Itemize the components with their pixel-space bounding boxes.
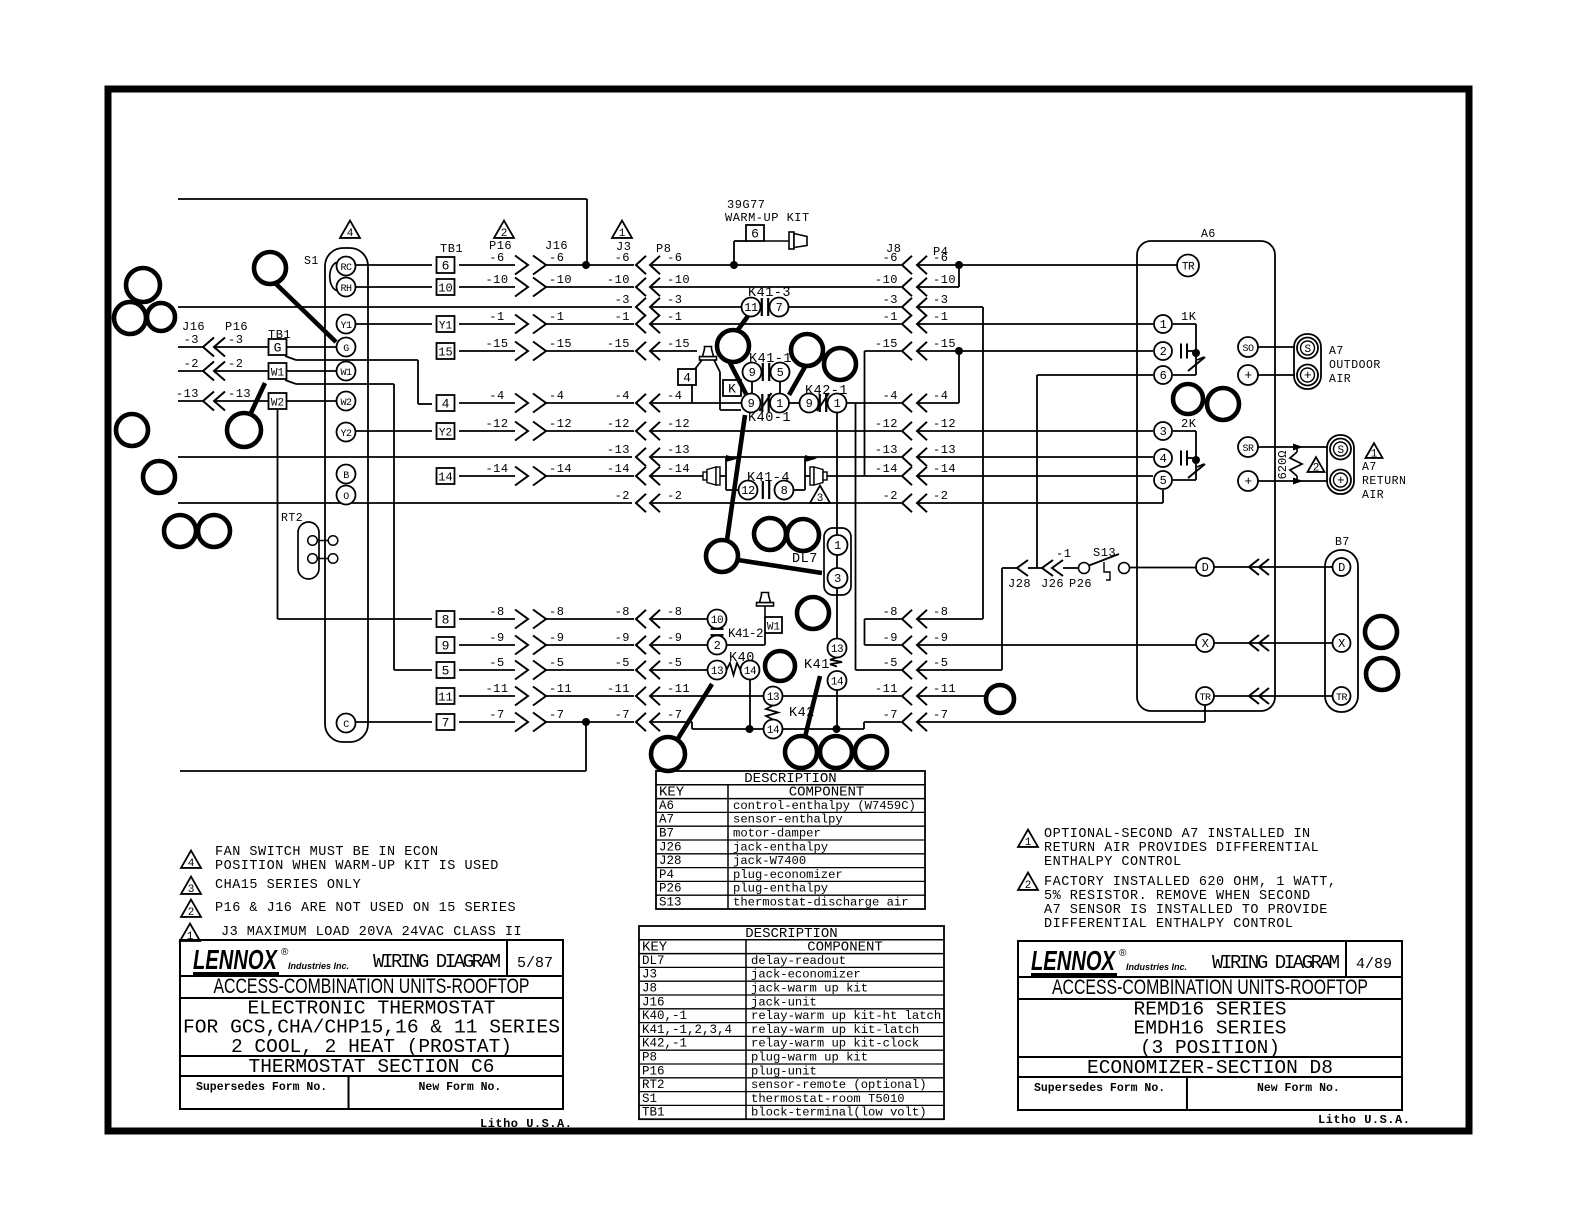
svg-text:K41-2: K41-2 bbox=[728, 627, 763, 641]
wire D row to B7 bbox=[1215, 559, 1333, 575]
connector J8/P4 -15 bbox=[875, 337, 956, 360]
svg-text:RC: RC bbox=[340, 263, 352, 274]
svg-text:-15: -15 bbox=[485, 337, 508, 351]
svg-text:10: 10 bbox=[438, 282, 452, 296]
svg-text:K40,-1: K40,-1 bbox=[642, 1009, 687, 1023]
svg-text:1: 1 bbox=[619, 228, 626, 240]
terminal block square 4 bbox=[437, 395, 455, 412]
connector J3/P8 -13 bbox=[607, 443, 690, 466]
S1 terminal W2 bbox=[337, 392, 356, 411]
svg-text:sensor-remote (optional): sensor-remote (optional) bbox=[751, 1078, 927, 1092]
svg-text:J28: J28 bbox=[1008, 577, 1031, 591]
svg-text:11: 11 bbox=[744, 301, 758, 315]
svg-text:-5: -5 bbox=[489, 656, 504, 670]
label A7 RETURN AIR bbox=[1362, 461, 1406, 502]
svg-text:jack-W7400: jack-W7400 bbox=[733, 854, 806, 868]
svg-text:4/89: 4/89 bbox=[1356, 956, 1392, 973]
svg-text:control-enthalpy (W7459C): control-enthalpy (W7459C) bbox=[733, 799, 916, 813]
svg-text:-15: -15 bbox=[549, 337, 572, 351]
svg-text:B7: B7 bbox=[1335, 536, 1350, 549]
svg-text:14: 14 bbox=[831, 677, 844, 689]
wire buzzer legs to 4 and K bbox=[695, 360, 741, 410]
svg-text:K40-1: K40-1 bbox=[748, 411, 791, 426]
terminal block square 10 bbox=[437, 279, 455, 296]
svg-text:-12: -12 bbox=[607, 417, 630, 431]
svg-text:-14: -14 bbox=[485, 462, 508, 476]
svg-text:-15: -15 bbox=[933, 337, 956, 351]
svg-text:jack-enthalpy: jack-enthalpy bbox=[733, 840, 828, 854]
svg-text:relay-warm up kit-ht latch: relay-warm up kit-ht latch bbox=[751, 1009, 941, 1023]
svg-text:J8: J8 bbox=[642, 982, 657, 996]
svg-text:A7: A7 bbox=[659, 813, 674, 827]
indicator buzzer at W1 bbox=[757, 593, 774, 618]
svg-text:-15: -15 bbox=[667, 337, 690, 351]
S1 terminal O bbox=[337, 486, 356, 505]
wire row -10 bbox=[355, 265, 959, 287]
svg-text:-10: -10 bbox=[607, 273, 630, 287]
svg-text:RETURN: RETURN bbox=[1362, 475, 1406, 488]
svg-text:J26: J26 bbox=[659, 840, 682, 854]
svg-text:-5: -5 bbox=[615, 656, 630, 670]
connector J8/P4 -2 bbox=[883, 489, 949, 512]
svg-text:13: 13 bbox=[711, 666, 723, 678]
svg-text:-10: -10 bbox=[875, 273, 898, 287]
note 1 text bbox=[180, 924, 522, 944]
connector P16/J16 -12 bbox=[485, 417, 572, 441]
svg-text:-7: -7 bbox=[933, 708, 948, 722]
svg-text:-12: -12 bbox=[485, 417, 508, 431]
svg-text:P26: P26 bbox=[1069, 577, 1092, 591]
1K potentiometer bbox=[1173, 310, 1205, 375]
svg-text:plug-economizer: plug-economizer bbox=[733, 868, 843, 882]
svg-text:13: 13 bbox=[767, 692, 779, 704]
svg-text:-13: -13 bbox=[667, 443, 690, 457]
39G77 warm-up kit bbox=[725, 198, 810, 264]
S1 terminal W1 bbox=[337, 362, 356, 381]
wire row -3 middle/right bbox=[650, 307, 983, 619]
border frame bbox=[108, 89, 1469, 1131]
svg-text:6: 6 bbox=[1160, 369, 1167, 383]
svg-text:Y2: Y2 bbox=[340, 429, 352, 440]
svg-text:1: 1 bbox=[1160, 318, 1167, 332]
terminal block square W1 bbox=[269, 363, 287, 380]
svg-text:-7: -7 bbox=[489, 708, 504, 722]
wire X row to B7 bbox=[1214, 635, 1332, 651]
svg-text:2K: 2K bbox=[1181, 417, 1197, 431]
svg-text:Litho U.S.A.: Litho U.S.A. bbox=[480, 1117, 572, 1131]
wire A6 terminal 6 to S13 bbox=[1037, 375, 1153, 568]
svg-text:S13: S13 bbox=[1093, 546, 1116, 560]
svg-text:®: ® bbox=[281, 947, 289, 958]
svg-text:-6: -6 bbox=[549, 251, 564, 265]
relay contact K41-4 bbox=[739, 471, 794, 500]
title block right (economizer section D8) bbox=[1018, 941, 1402, 1110]
svg-text:-1: -1 bbox=[933, 310, 948, 324]
svg-text:J16: J16 bbox=[182, 320, 205, 334]
wire SR to return S bbox=[1258, 446, 1328, 448]
sensor A7 return air connector bbox=[1327, 435, 1354, 494]
A6 terminal 2 bbox=[1154, 342, 1172, 360]
svg-text:9: 9 bbox=[806, 397, 813, 411]
connector P16/J16 -14 bbox=[485, 462, 572, 486]
svg-text:P16 & J16 ARE NOT USED ON 15 S: P16 & J16 ARE NOT USED ON 15 SERIES bbox=[215, 901, 516, 916]
connector J8/P4 -11 bbox=[875, 682, 956, 705]
svg-text:thermostat-discharge air: thermostat-discharge air bbox=[733, 896, 909, 910]
svg-text:-7: -7 bbox=[883, 708, 898, 722]
svg-text:5% RESISTOR. REMOVE WHEN SECON: 5% RESISTOR. REMOVE WHEN SECOND bbox=[1044, 889, 1311, 904]
svg-text:1: 1 bbox=[834, 397, 841, 411]
connector J8/P4 -6 bbox=[883, 251, 949, 274]
connector J8/P4 -14 bbox=[875, 462, 956, 485]
svg-text:-3: -3 bbox=[883, 293, 898, 307]
svg-text:-9: -9 bbox=[883, 631, 898, 645]
svg-text:K: K bbox=[728, 382, 736, 397]
connector J8/P4 -7 bbox=[883, 708, 949, 731]
svg-text:A7: A7 bbox=[1329, 345, 1344, 358]
svg-text:-7: -7 bbox=[667, 708, 682, 722]
svg-text:A6: A6 bbox=[659, 799, 674, 813]
svg-text:4: 4 bbox=[347, 228, 354, 240]
svg-text:-5: -5 bbox=[667, 656, 682, 670]
svg-text:P16: P16 bbox=[225, 320, 248, 334]
svg-text:SR: SR bbox=[1242, 444, 1254, 455]
svg-text:P8: P8 bbox=[642, 1051, 657, 1065]
svg-text:-14: -14 bbox=[667, 462, 690, 476]
A6 terminal 4 bbox=[1154, 449, 1172, 467]
connector P16/J16 -11 bbox=[485, 682, 572, 706]
wire G to TB1-4 bbox=[285, 356, 432, 404]
connector P16/J16 -6 bbox=[489, 251, 564, 275]
svg-text:X: X bbox=[1202, 637, 1209, 651]
svg-text:-3: -3 bbox=[933, 293, 948, 307]
wire row -1 bbox=[355, 323, 1153, 325]
svg-text:J3 MAXIMUM LOAD 20VA 24VAC CLA: J3 MAXIMUM LOAD 20VA 24VAC CLASS II bbox=[221, 925, 522, 940]
wire TR row to B7 bbox=[1214, 688, 1332, 704]
svg-text:ACCESS-COMBINATION UNITS-ROOFT: ACCESS-COMBINATION UNITS-ROOFTOP bbox=[1052, 976, 1368, 999]
note triangle 3 bbox=[810, 486, 830, 506]
svg-text:-13: -13 bbox=[176, 387, 199, 401]
svg-text:-4: -4 bbox=[883, 389, 898, 403]
description table B (thermostat keys) bbox=[639, 926, 944, 1120]
note 2 text bbox=[181, 900, 516, 920]
description table A (economizer keys) bbox=[656, 771, 925, 910]
svg-text:1: 1 bbox=[1025, 837, 1032, 849]
A6 terminal 5 bbox=[1154, 471, 1172, 489]
svg-text:D: D bbox=[1202, 561, 1209, 575]
note triangle 1 return air bbox=[1366, 443, 1383, 460]
connector J3/P8 -7 bbox=[615, 708, 683, 731]
svg-text:New Form No.: New Form No. bbox=[1257, 1082, 1340, 1095]
wire top feeder to row -6 bbox=[178, 199, 587, 265]
svg-text:4: 4 bbox=[683, 371, 691, 386]
terminal block square 11 bbox=[437, 688, 455, 705]
wire row -8 bbox=[459, 619, 983, 645]
svg-text:-4: -4 bbox=[549, 389, 564, 403]
A6 terminal TR out bbox=[1196, 687, 1214, 705]
svg-text:Supersedes Form No.: Supersedes Form No. bbox=[1034, 1082, 1165, 1095]
svg-text:P16: P16 bbox=[642, 1064, 665, 1078]
svg-text:7: 7 bbox=[442, 716, 450, 731]
terminal block square 6 bbox=[437, 257, 455, 274]
svg-text:-2: -2 bbox=[228, 357, 243, 371]
svg-text:-10: -10 bbox=[933, 273, 956, 287]
svg-text:14: 14 bbox=[767, 725, 780, 737]
svg-text:-11: -11 bbox=[549, 682, 572, 696]
svg-text:11: 11 bbox=[438, 691, 452, 705]
connector J3/P8 -5 bbox=[615, 656, 683, 679]
left row -13 wire to W2 bbox=[178, 400, 336, 402]
relay contact K40-1 bbox=[742, 393, 792, 426]
svg-text:New Form No.: New Form No. bbox=[419, 1081, 502, 1094]
svg-text:-10: -10 bbox=[549, 273, 572, 287]
connector J3/P8 -4 bbox=[615, 389, 683, 412]
svg-text:B7: B7 bbox=[659, 827, 674, 841]
svg-text:-11: -11 bbox=[933, 682, 956, 696]
svg-text:-9: -9 bbox=[549, 631, 564, 645]
A6 terminal TR1 bbox=[1177, 255, 1199, 277]
relay coil K41 bbox=[804, 639, 847, 730]
svg-text:W2: W2 bbox=[271, 398, 284, 410]
svg-text:5: 5 bbox=[1160, 474, 1167, 488]
svg-text:13: 13 bbox=[831, 644, 843, 656]
svg-text:-3: -3 bbox=[615, 293, 630, 307]
connector J3/P8 -15 bbox=[607, 337, 690, 360]
svg-text:-14: -14 bbox=[607, 462, 630, 476]
svg-text:-14: -14 bbox=[549, 462, 572, 476]
wire SO to outdoor S bbox=[1258, 346, 1295, 348]
svg-text:-9: -9 bbox=[615, 631, 630, 645]
svg-text:relay-warm up kit-latch: relay-warm up kit-latch bbox=[751, 1023, 919, 1037]
svg-text:4: 4 bbox=[442, 397, 450, 412]
svg-text:D: D bbox=[1338, 561, 1345, 575]
svg-text:-4: -4 bbox=[667, 389, 682, 403]
wire row -3 long left segment bbox=[178, 306, 632, 308]
label A7 OUTDOOR AIR bbox=[1329, 345, 1381, 386]
note triangle 2 at resistor bbox=[1308, 457, 1325, 474]
svg-text:-6: -6 bbox=[615, 251, 630, 265]
svg-text:plug-unit: plug-unit bbox=[751, 1064, 817, 1078]
terminal block square G bbox=[269, 339, 287, 356]
svg-text:14: 14 bbox=[744, 666, 757, 678]
svg-text:2: 2 bbox=[1313, 462, 1320, 474]
svg-text:-1: -1 bbox=[883, 310, 898, 324]
svg-text:LENNOX: LENNOX bbox=[193, 944, 279, 975]
wire row -4 bbox=[459, 403, 959, 670]
svg-text:S1: S1 bbox=[642, 1092, 657, 1106]
connector J8/P4 -10 bbox=[875, 273, 956, 296]
delay readout DL7 bbox=[792, 413, 851, 639]
wire row -11 bbox=[459, 695, 985, 697]
connector J8/P4 -1 bbox=[883, 310, 949, 333]
svg-text:DL7: DL7 bbox=[792, 552, 818, 567]
svg-text:Supersedes Form No.: Supersedes Form No. bbox=[196, 1081, 327, 1094]
svg-text:-11: -11 bbox=[607, 682, 630, 696]
svg-text:A7 SENSOR IS INSTALLED TO PROV: A7 SENSOR IS INSTALLED TO PROVIDE bbox=[1044, 903, 1328, 918]
svg-text:Industries Inc.: Industries Inc. bbox=[1126, 962, 1187, 972]
svg-text:620Ω: 620Ω bbox=[1276, 451, 1290, 480]
svg-text:-2: -2 bbox=[615, 489, 630, 503]
svg-text:-8: -8 bbox=[667, 605, 682, 619]
wire bottom return from row -7 bbox=[180, 718, 590, 771]
S1 terminal G bbox=[337, 338, 356, 357]
connector J8/P4 -13 bbox=[875, 443, 956, 466]
wire row -13 long left segment bbox=[178, 456, 632, 458]
svg-text:K42,-1: K42,-1 bbox=[642, 1037, 687, 1051]
jumper arc RC-RH bbox=[330, 262, 338, 291]
svg-text:-6: -6 bbox=[489, 251, 504, 265]
svg-text:delay-readout: delay-readout bbox=[751, 954, 846, 968]
svg-text:C: C bbox=[343, 720, 349, 731]
svg-text:P26: P26 bbox=[659, 882, 682, 896]
terminal block square W2 bbox=[269, 393, 287, 410]
svg-text:jack-warm up kit: jack-warm up kit bbox=[751, 982, 868, 996]
svg-text:3: 3 bbox=[834, 572, 841, 586]
svg-text:WIRING DIAGRAM: WIRING DIAGRAM bbox=[1212, 952, 1340, 974]
svg-text:plug-warm up kit: plug-warm up kit bbox=[751, 1051, 868, 1065]
connector J3/P8 -12 bbox=[607, 417, 690, 440]
terminal block square 14 bbox=[437, 468, 455, 485]
svg-text:W1: W1 bbox=[340, 368, 352, 379]
svg-text:TR: TR bbox=[1199, 693, 1211, 704]
svg-text:WARM-UP KIT: WARM-UP KIT bbox=[725, 211, 810, 225]
connector J3/P8 -3 bbox=[615, 293, 683, 316]
relay contact K41-2 bbox=[708, 610, 764, 655]
svg-text:5: 5 bbox=[442, 664, 450, 679]
svg-text:AIR: AIR bbox=[1329, 373, 1351, 386]
connector J8/P4 -3 bbox=[883, 293, 949, 316]
connector J8/P4 -4 bbox=[883, 389, 949, 412]
svg-text:W1: W1 bbox=[767, 622, 781, 634]
svg-text:-1: -1 bbox=[615, 310, 630, 324]
svg-text:9: 9 bbox=[749, 366, 756, 380]
svg-text:Litho U.S.A.: Litho U.S.A. bbox=[1318, 1113, 1410, 1127]
left connector -13 chevrons bbox=[176, 387, 251, 411]
P16 header + triangle 2 bbox=[489, 221, 514, 253]
svg-text:-3: -3 bbox=[228, 333, 243, 347]
svg-text:7: 7 bbox=[776, 301, 783, 315]
terminal block square Y1 bbox=[437, 316, 455, 333]
svg-text:THERMOSTAT SECTION C6: THERMOSTAT SECTION C6 bbox=[249, 1056, 495, 1078]
svg-text:S1: S1 bbox=[304, 255, 319, 268]
svg-text:-7: -7 bbox=[549, 708, 564, 722]
svg-text:8: 8 bbox=[781, 484, 788, 498]
connector P16/J16 -7 bbox=[489, 708, 564, 732]
svg-text:Industries Inc.: Industries Inc. bbox=[288, 961, 349, 971]
svg-text:-3: -3 bbox=[184, 333, 199, 347]
svg-text:-12: -12 bbox=[667, 417, 690, 431]
svg-text:P4: P4 bbox=[659, 868, 674, 882]
svg-text:-12: -12 bbox=[933, 417, 956, 431]
right note 1 bbox=[1018, 827, 1319, 870]
svg-text:plug-enthalpy: plug-enthalpy bbox=[733, 882, 828, 896]
connector P16/J16 -8 bbox=[489, 605, 564, 629]
svg-text:ACCESS-COMBINATION UNITS-ROOFT: ACCESS-COMBINATION UNITS-ROOFTOP bbox=[214, 975, 530, 998]
svg-text:-2: -2 bbox=[184, 357, 199, 371]
svg-text:2: 2 bbox=[1160, 345, 1167, 359]
S1 terminal Y2 bbox=[337, 423, 356, 442]
svg-text:-4: -4 bbox=[615, 389, 630, 403]
note 3 text bbox=[181, 877, 361, 897]
svg-text:block-terminal(low volt): block-terminal(low volt) bbox=[751, 1106, 927, 1120]
connector J3/P8 -14 bbox=[607, 462, 690, 485]
thermostat discharge S13 switch bbox=[1002, 546, 1196, 591]
motor-damper B7 bbox=[1325, 536, 1358, 712]
svg-text:-2: -2 bbox=[883, 489, 898, 503]
annotation circles bbox=[114, 252, 1398, 771]
A6 terminal plus return bbox=[1238, 471, 1258, 491]
note triangle 4 above S1 bbox=[340, 221, 360, 241]
svg-text:X: X bbox=[1338, 637, 1345, 651]
wire plus to outdoor plus bbox=[1258, 374, 1295, 376]
S1 terminal B bbox=[337, 465, 356, 484]
connector P16/J16 -15 bbox=[485, 337, 572, 361]
svg-text:1K: 1K bbox=[1181, 310, 1197, 324]
svg-text:FACTORY INSTALLED 620 OHM, 1 W: FACTORY INSTALLED 620 OHM, 1 WATT, bbox=[1044, 875, 1336, 890]
svg-text:J28: J28 bbox=[659, 854, 682, 868]
svg-text:1: 1 bbox=[776, 397, 783, 411]
svg-text:-10: -10 bbox=[667, 273, 690, 287]
svg-text:jack-unit: jack-unit bbox=[751, 995, 817, 1009]
svg-text:12: 12 bbox=[741, 484, 755, 498]
svg-text:2: 2 bbox=[1025, 880, 1032, 892]
svg-text:sensor-enthalpy: sensor-enthalpy bbox=[733, 813, 843, 827]
svg-text:SO: SO bbox=[1242, 344, 1254, 355]
svg-text:-8: -8 bbox=[883, 605, 898, 619]
resistor 620 ohm bbox=[1276, 444, 1303, 485]
terminal block square 8 bbox=[437, 611, 455, 628]
svg-text:-9: -9 bbox=[489, 631, 504, 645]
svg-text:OUTDOOR: OUTDOOR bbox=[1329, 359, 1381, 372]
svg-text:DIFFERENTIAL ENTHALPY CONTROL: DIFFERENTIAL ENTHALPY CONTROL bbox=[1044, 917, 1293, 932]
svg-text:+: + bbox=[1244, 474, 1252, 489]
connector J3/P8 -6 bbox=[615, 251, 683, 274]
S1 terminal RC bbox=[337, 257, 356, 276]
svg-text:-14: -14 bbox=[933, 462, 956, 476]
svg-text:RH: RH bbox=[340, 284, 352, 295]
svg-text:-2: -2 bbox=[667, 489, 682, 503]
svg-text:G: G bbox=[343, 344, 349, 355]
svg-text:-15: -15 bbox=[875, 337, 898, 351]
svg-text:2: 2 bbox=[501, 228, 508, 240]
connector J3/P8 -1 bbox=[615, 310, 683, 333]
svg-text:WIRING DIAGRAM: WIRING DIAGRAM bbox=[373, 951, 501, 973]
K41-4 right plug bbox=[793, 455, 828, 490]
svg-text:-8: -8 bbox=[489, 605, 504, 619]
svg-text:-1: -1 bbox=[549, 310, 564, 324]
connector J8/P4 -9 bbox=[883, 631, 949, 654]
relay K41-4 assembly bbox=[703, 455, 740, 490]
svg-text:LENNOX: LENNOX bbox=[1031, 945, 1117, 976]
svg-text:3: 3 bbox=[1160, 425, 1167, 439]
terminal block square 15 bbox=[437, 343, 455, 360]
connector P16/J16 -1 bbox=[489, 310, 564, 334]
svg-text:POSITION WHEN WARM-UP KIT IS U: POSITION WHEN WARM-UP KIT IS USED bbox=[215, 859, 499, 874]
left connector -2 chevrons bbox=[184, 357, 244, 381]
boxed terminal W1 bbox=[765, 617, 782, 634]
svg-text:2: 2 bbox=[188, 907, 195, 919]
wire row -7 bbox=[355, 706, 1205, 734]
svg-text:-8: -8 bbox=[933, 605, 948, 619]
svg-text:-9: -9 bbox=[933, 631, 948, 645]
svg-text:9: 9 bbox=[442, 639, 450, 654]
svg-text:-1: -1 bbox=[667, 310, 682, 324]
boxed terminal 4 bbox=[678, 369, 696, 403]
connector P16/J16 -4 bbox=[489, 389, 564, 413]
wire row -14 bbox=[459, 475, 1153, 477]
svg-text:1: 1 bbox=[187, 931, 194, 943]
svg-text:-12: -12 bbox=[549, 417, 572, 431]
terminal block square 5 bbox=[437, 662, 455, 679]
